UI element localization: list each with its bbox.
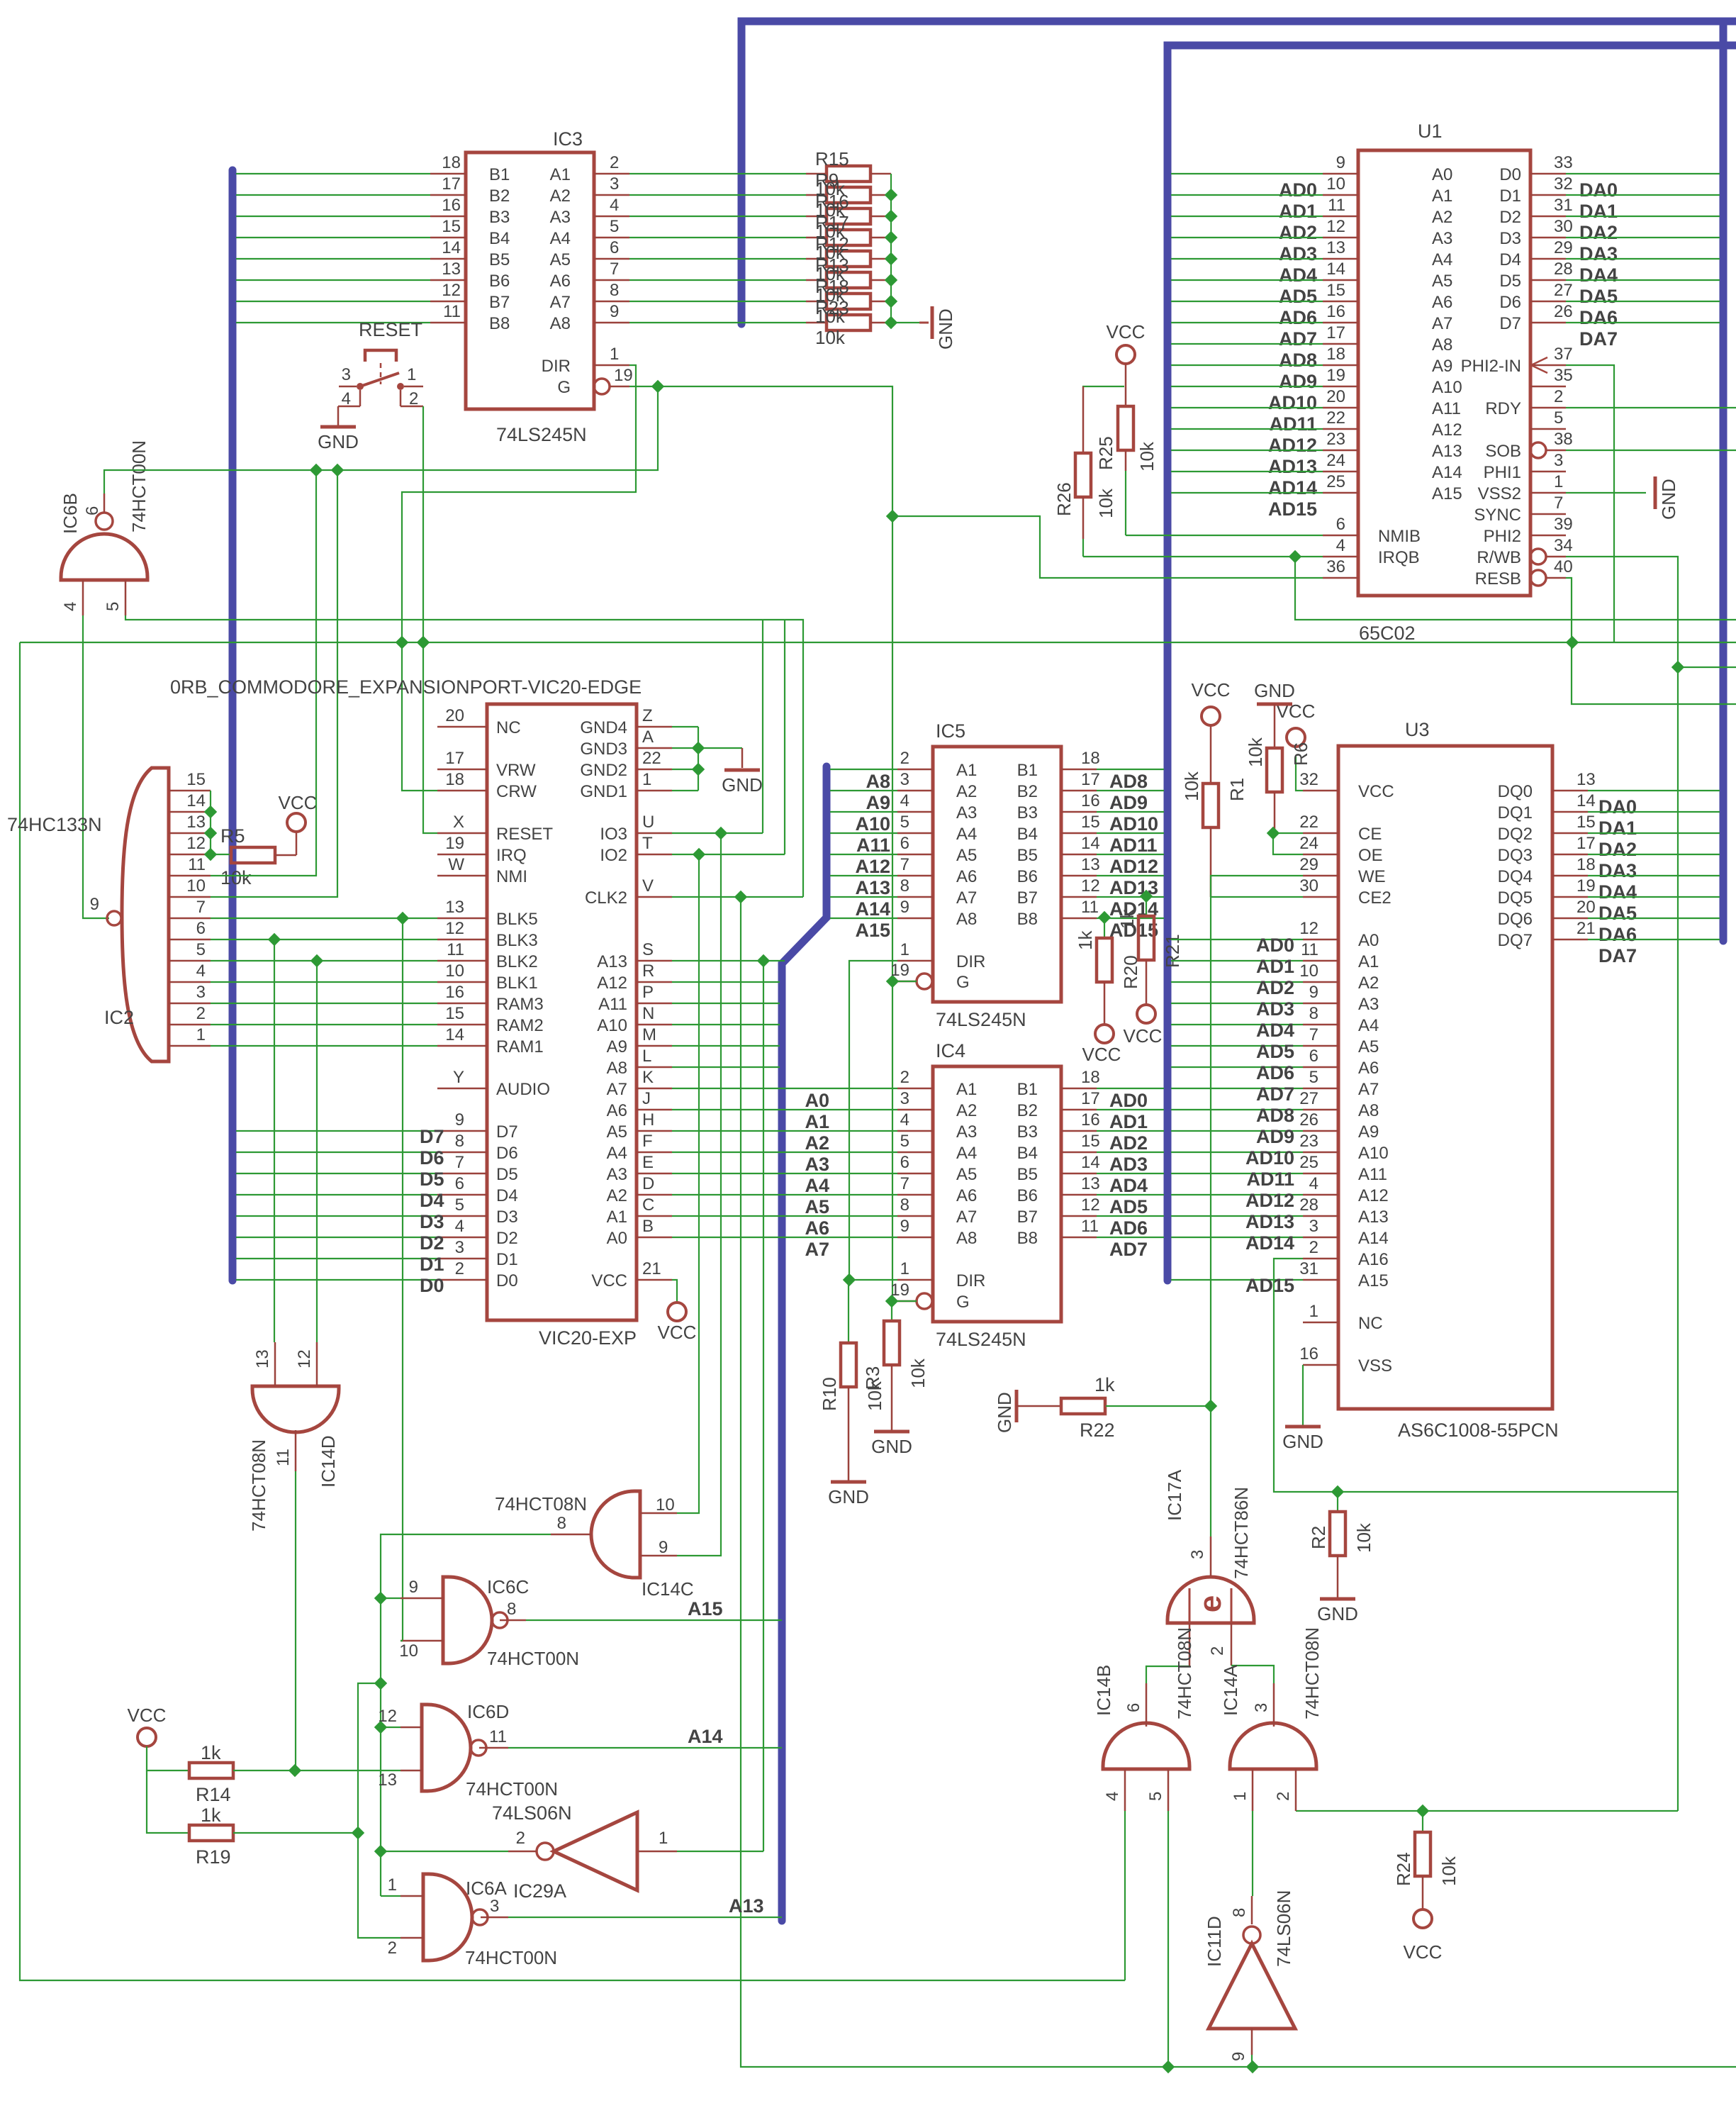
svg-text:GND: GND	[722, 774, 763, 796]
svg-text:7: 7	[455, 1153, 464, 1172]
svg-text:10: 10	[445, 961, 464, 981]
svg-text:13: 13	[186, 813, 206, 832]
svg-text:19: 19	[890, 961, 909, 980]
svg-text:11: 11	[274, 1449, 293, 1466]
svg-text:12: 12	[186, 834, 206, 853]
svg-text:5: 5	[455, 1195, 464, 1215]
svg-text:VSS2: VSS2	[1478, 484, 1521, 503]
svg-text:1: 1	[196, 1025, 206, 1044]
svg-text:e: e	[1193, 1595, 1228, 1612]
svg-text:VIC20-EXP: VIC20-EXP	[539, 1327, 637, 1349]
svg-text:AD10: AD10	[1245, 1147, 1294, 1169]
svg-text:IC17A: IC17A	[1164, 1469, 1185, 1521]
svg-text:W: W	[448, 855, 464, 874]
svg-text:DA6: DA6	[1598, 924, 1637, 945]
svg-text:11: 11	[447, 940, 464, 959]
svg-text:R26: R26	[1053, 482, 1075, 516]
svg-text:17: 17	[1081, 770, 1100, 789]
svg-text:K: K	[642, 1068, 654, 1087]
svg-text:AD2: AD2	[1279, 222, 1317, 243]
svg-text:R24: R24	[1393, 1852, 1414, 1886]
svg-text:OE: OE	[1358, 846, 1383, 865]
svg-text:NC: NC	[496, 718, 521, 737]
svg-text:WE: WE	[1358, 867, 1386, 886]
svg-text:23: 23	[1326, 430, 1345, 449]
gate IC6C 74HCT00N NAND	[399, 1576, 579, 1669]
svg-text:A9: A9	[607, 1037, 627, 1056]
svg-text:74LS245N: 74LS245N	[936, 1009, 1026, 1030]
bus: VIC20 data/IC3 bus vertical at left	[229, 170, 237, 1281]
svg-text:A7: A7	[1358, 1080, 1379, 1099]
svg-text:AD3: AD3	[1256, 998, 1294, 1020]
gate IC6A 74HCT00N NAND	[388, 1874, 557, 1968]
wire: IC17A input 1 from IC14B	[1146, 1666, 1189, 1683]
svg-text:15: 15	[1326, 281, 1345, 300]
svg-text:5: 5	[1554, 408, 1563, 428]
svg-text:C: C	[642, 1195, 654, 1215]
svg-text:A10: A10	[1358, 1144, 1389, 1163]
svg-text:SOB: SOB	[1485, 442, 1521, 461]
ground GND below reset switch	[318, 427, 359, 452]
svg-text:A2: A2	[607, 1186, 627, 1205]
svg-text:74HCT00N: 74HCT00N	[487, 1648, 579, 1669]
wire: IC14D output down to IC6D input 13	[295, 1471, 296, 1770]
svg-text:2: 2	[1208, 1646, 1227, 1656]
svg-text:8: 8	[557, 1514, 566, 1533]
svg-text:IO2: IO2	[600, 846, 627, 865]
svg-text:D7: D7	[1499, 314, 1521, 333]
svg-text:A5: A5	[956, 1165, 977, 1184]
svg-text:7: 7	[1554, 493, 1563, 513]
resistor R10 10k on DIR net to GND	[819, 1280, 885, 1480]
svg-text:R22: R22	[1080, 1420, 1115, 1441]
svg-text:3: 3	[196, 983, 206, 1002]
wire: IC3 A-side wires to pull-down resistors	[629, 174, 806, 323]
svg-text:18: 18	[1577, 855, 1596, 874]
svg-text:A12: A12	[597, 974, 627, 993]
svg-text:DQ4: DQ4	[1498, 867, 1533, 886]
gate IC29A 74LS06N inverter	[492, 1802, 677, 1902]
connector VIC20-EXP 0RB_COMMODORE_EXPANSIONPORT-VIC20-EDGE	[170, 676, 672, 1349]
svg-text:1k: 1k	[1094, 1374, 1115, 1395]
svg-text:DQ1: DQ1	[1498, 803, 1533, 822]
wire: U3 VCC pin	[1296, 757, 1303, 791]
svg-text:AD4: AD4	[1279, 264, 1317, 286]
svg-text:0RB_COMMODORE_EXPANSIONPORT-VI: 0RB_COMMODORE_EXPANSIONPORT-VIC20-EDGE	[170, 676, 642, 698]
svg-text:DQ6: DQ6	[1498, 910, 1533, 929]
svg-text:B1: B1	[1017, 761, 1038, 780]
svg-text:M: M	[642, 1025, 656, 1044]
svg-text:12: 12	[1081, 876, 1100, 896]
wire: IC6B input 5 to CLK2 drop	[125, 615, 803, 897]
svg-text:D0: D0	[1499, 165, 1521, 184]
wire: BLK5 vertical to gates	[396, 912, 409, 1641]
svg-text:AD10: AD10	[1109, 813, 1158, 835]
svg-text:15: 15	[1577, 813, 1596, 832]
svg-text:19: 19	[1577, 876, 1596, 896]
svg-text:AD9: AD9	[1279, 371, 1317, 392]
svg-text:D1: D1	[1499, 186, 1521, 206]
svg-text:A4: A4	[805, 1175, 829, 1196]
svg-text:A11: A11	[1358, 1165, 1387, 1184]
svg-text:A9: A9	[866, 792, 890, 813]
svg-text:A14: A14	[855, 898, 890, 920]
svg-text:A13: A13	[1358, 1208, 1389, 1227]
svg-text:17: 17	[1577, 834, 1596, 853]
IC IC2 74HC133N 13-input NAND	[7, 768, 211, 1061]
svg-text:29: 29	[1554, 238, 1573, 257]
svg-text:A5: A5	[956, 846, 977, 865]
svg-text:A6: A6	[1432, 293, 1452, 312]
wire: IC6A output A13 to bus	[508, 1917, 782, 1918]
svg-text:A4: A4	[956, 1144, 977, 1163]
svg-text:A11: A11	[856, 835, 890, 856]
svg-text:DQ0: DQ0	[1498, 782, 1533, 801]
svg-text:A11: A11	[598, 995, 627, 1014]
svg-text:A0: A0	[1358, 931, 1379, 950]
svg-text:B7: B7	[1017, 1208, 1038, 1227]
svg-text:13: 13	[1081, 855, 1100, 874]
svg-text:AD3: AD3	[1109, 1154, 1148, 1175]
svg-text:18: 18	[1326, 345, 1345, 364]
svg-text:N: N	[642, 1004, 654, 1023]
svg-text:A6: A6	[956, 1186, 977, 1205]
svg-text:A5: A5	[1432, 272, 1452, 291]
svg-text:36: 36	[1326, 557, 1345, 576]
svg-text:15: 15	[442, 217, 461, 236]
wire: U1 VSS2 to ground	[1566, 492, 1646, 493]
svg-text:A4: A4	[607, 1144, 627, 1163]
svg-text:18: 18	[442, 153, 461, 172]
svg-text:14: 14	[1326, 260, 1345, 279]
svg-text:GND: GND	[318, 431, 359, 452]
svg-text:16: 16	[1081, 1110, 1100, 1130]
svg-text:A7: A7	[956, 1208, 977, 1227]
svg-text:6: 6	[610, 238, 619, 257]
bus: data bus DA0-DA7 vertical at right edge	[1720, 21, 1727, 941]
power VCC at VIC20 pin 21	[658, 1303, 697, 1343]
svg-text:IC11D: IC11D	[1204, 1916, 1225, 1967]
svg-text:11: 11	[1301, 940, 1318, 959]
resistor R2 10k A16 net to GND	[1308, 1492, 1374, 1597]
wire: reset switch to VIC20 RESET pin	[417, 406, 437, 833]
svg-text:R25: R25	[1095, 436, 1116, 470]
svg-text:DIR: DIR	[956, 952, 985, 971]
IC IC4 74LS245N address buffer low	[890, 1040, 1099, 1350]
svg-text:1: 1	[900, 1259, 909, 1278]
svg-text:32: 32	[1554, 174, 1573, 194]
svg-text:6: 6	[83, 506, 102, 515]
svg-text:A0: A0	[1432, 165, 1452, 184]
svg-text:AS6C1008-55PCN: AS6C1008-55PCN	[1398, 1420, 1559, 1441]
svg-text:5: 5	[610, 217, 619, 236]
svg-text:A13: A13	[855, 877, 890, 898]
svg-text:DA4: DA4	[1579, 264, 1618, 286]
svg-text:19: 19	[1326, 366, 1345, 385]
svg-text:RESET: RESET	[496, 825, 553, 844]
svg-text:G: G	[956, 973, 970, 992]
svg-text:IC29A: IC29A	[513, 1880, 566, 1902]
svg-text:AD11: AD11	[1246, 1169, 1294, 1190]
svg-text:A3: A3	[607, 1165, 627, 1184]
svg-text:VRW: VRW	[496, 761, 536, 780]
svg-text:4: 4	[1103, 1792, 1122, 1801]
wire: IC6D output A14 to bus	[508, 1747, 782, 1749]
svg-text:B8: B8	[1017, 1229, 1038, 1248]
wire: IC4 G from chain	[885, 1295, 917, 1307]
svg-text:A2: A2	[550, 186, 571, 206]
svg-text:14: 14	[445, 1025, 464, 1044]
svg-text:A8: A8	[956, 1229, 977, 1248]
svg-text:D4: D4	[1499, 250, 1521, 269]
svg-text:AUDIO: AUDIO	[496, 1080, 550, 1099]
ground GND at VIC20	[722, 748, 763, 796]
svg-text:33: 33	[1554, 153, 1573, 172]
svg-text:B3: B3	[1017, 803, 1038, 822]
svg-text:20: 20	[1577, 898, 1596, 917]
svg-text:B7: B7	[1017, 888, 1038, 908]
svg-text:DQ5: DQ5	[1498, 888, 1533, 908]
svg-text:12: 12	[442, 281, 461, 300]
svg-text:AD2: AD2	[1109, 1132, 1148, 1154]
svg-text:E: E	[642, 1153, 654, 1172]
svg-text:VCC: VCC	[658, 1322, 697, 1343]
svg-text:2: 2	[1274, 1792, 1293, 1801]
svg-text:A12: A12	[855, 856, 890, 877]
svg-text:74HCT08N: 74HCT08N	[1301, 1627, 1323, 1719]
resistor R20 1k on AD15 to VCC	[1075, 911, 1141, 1065]
wire: R22 to WE vertical	[1106, 1405, 1211, 1407]
svg-text:A4: A4	[1432, 250, 1452, 269]
svg-text:29: 29	[1299, 855, 1318, 874]
svg-text:AD14: AD14	[1245, 1232, 1294, 1254]
resistor R1 10k VCC to CE2	[1181, 679, 1248, 897]
svg-text:4: 4	[610, 196, 619, 215]
IC IC3 74LS245N bus transceiver	[430, 128, 633, 445]
svg-text:A0: A0	[805, 1090, 829, 1111]
svg-text:RESET: RESET	[359, 319, 422, 340]
svg-text:AD8: AD8	[1256, 1105, 1294, 1126]
svg-text:A1: A1	[1358, 952, 1379, 971]
svg-text:R23: R23	[815, 297, 849, 318]
svg-text:10k: 10k	[1095, 488, 1116, 518]
svg-text:9: 9	[90, 895, 99, 914]
svg-text:AD15: AD15	[1268, 498, 1317, 520]
svg-text:R6: R6	[1290, 742, 1311, 766]
svg-text:DA0: DA0	[1598, 796, 1637, 818]
svg-text:VCC: VCC	[1124, 1025, 1163, 1047]
svg-text:35: 35	[1554, 366, 1573, 385]
svg-text:A6: A6	[607, 1101, 627, 1120]
svg-text:31: 31	[1554, 196, 1573, 215]
svg-text:10k: 10k	[1181, 771, 1202, 801]
label net A15	[688, 1598, 723, 1619]
svg-text:37: 37	[1554, 345, 1573, 364]
svg-text:AD10: AD10	[1268, 392, 1317, 413]
svg-text:10: 10	[1326, 174, 1345, 194]
wire: U1 RDY to sheet edge	[1566, 407, 1736, 408]
wire: BLK1 net IC2.4	[211, 981, 437, 983]
svg-text:IC14A: IC14A	[1220, 1664, 1241, 1716]
svg-text:X: X	[453, 813, 464, 832]
svg-text:A3: A3	[805, 1154, 829, 1175]
svg-text:DQ2: DQ2	[1498, 825, 1533, 844]
svg-text:74HCT86N: 74HCT86N	[1231, 1487, 1252, 1579]
svg-text:D5: D5	[1499, 272, 1521, 291]
svg-text:IC3: IC3	[553, 128, 583, 150]
svg-text:8: 8	[507, 1600, 516, 1619]
svg-text:VCC: VCC	[1107, 321, 1146, 342]
svg-text:74LS06N: 74LS06N	[1273, 1890, 1294, 1967]
svg-text:RDY: RDY	[1485, 399, 1521, 418]
svg-text:B3: B3	[1017, 1122, 1038, 1142]
svg-text:CE: CE	[1358, 825, 1382, 844]
svg-text:AD1: AD1	[1256, 956, 1294, 977]
svg-text:16: 16	[442, 196, 461, 215]
resistor R5 10k pullup to VCC	[211, 792, 317, 888]
wire: CLK2 net V	[672, 891, 803, 903]
svg-text:6: 6	[900, 1153, 909, 1172]
svg-text:39: 39	[1554, 515, 1573, 534]
svg-text:R15: R15	[815, 148, 849, 169]
svg-text:IC6D: IC6D	[467, 1701, 509, 1722]
svg-text:18: 18	[445, 770, 464, 789]
wire: IC2 pin 11 from IC6B output net	[211, 464, 323, 876]
gate IC14B 74HCT08N AND	[1093, 1627, 1195, 1811]
svg-text:A5: A5	[550, 250, 571, 269]
svg-text:A1: A1	[550, 165, 571, 184]
svg-text:1: 1	[388, 1875, 397, 1895]
svg-text:A2: A2	[1432, 208, 1452, 227]
svg-text:A4: A4	[550, 229, 571, 248]
svg-text:8: 8	[900, 1195, 909, 1215]
svg-text:GND: GND	[935, 308, 956, 350]
svg-text:R18: R18	[815, 276, 849, 297]
svg-text:27: 27	[1299, 1089, 1318, 1108]
svg-text:U: U	[642, 813, 654, 832]
svg-text:R16: R16	[815, 191, 849, 212]
svg-text:B3: B3	[489, 208, 510, 227]
wire: VIC20 A13-A8 rows to bus	[672, 961, 785, 1067]
svg-text:RAM3: RAM3	[496, 995, 544, 1014]
svg-text:GND4: GND4	[580, 718, 627, 737]
svg-text:3: 3	[1188, 1550, 1207, 1559]
svg-text:A6: A6	[956, 867, 977, 886]
svg-text:4: 4	[900, 1110, 909, 1130]
svg-text:B5: B5	[1017, 1165, 1038, 1184]
svg-text:A11: A11	[1432, 399, 1461, 418]
svg-text:9: 9	[1229, 2052, 1248, 2061]
svg-text:Z: Z	[642, 706, 653, 725]
svg-text:PHI2: PHI2	[1484, 527, 1521, 546]
svg-text:8: 8	[1230, 1908, 1249, 1917]
svg-text:2: 2	[1309, 1238, 1318, 1257]
wire: IO2 to IC14C input 10	[677, 854, 699, 1513]
svg-text:AD0: AD0	[1109, 1090, 1148, 1111]
svg-text:A2: A2	[1358, 974, 1379, 993]
resistor R3 10k on G net to GND	[862, 1301, 929, 1430]
svg-text:D2: D2	[420, 1232, 444, 1254]
ground GND below R3	[871, 1432, 912, 1457]
wire: IC29A input from tree	[381, 1851, 508, 1852]
svg-text:DA7: DA7	[1598, 945, 1637, 966]
wire: IO2 net T	[672, 620, 785, 861]
wire: IC14B input 4 from PHI2 rail	[1124, 1811, 1126, 1980]
svg-text:12: 12	[378, 1707, 397, 1726]
svg-text:4: 4	[455, 1217, 464, 1236]
svg-text:A3: A3	[956, 803, 977, 822]
svg-text:A9: A9	[1358, 1122, 1379, 1142]
wire: IC5 B outputs to bus labels AD8-AD15	[1097, 769, 1164, 941]
svg-text:AD5: AD5	[1109, 1196, 1148, 1217]
svg-text:10k: 10k	[815, 327, 846, 348]
svg-text:D1: D1	[420, 1254, 444, 1275]
svg-text:AD1: AD1	[1109, 1111, 1148, 1132]
wire: PHI2 net margin vertical down to IC14B	[20, 642, 1125, 1980]
svg-text:65C02: 65C02	[1359, 623, 1416, 644]
svg-text:30: 30	[1554, 217, 1573, 236]
svg-text:13: 13	[442, 260, 461, 279]
svg-text:6: 6	[900, 834, 909, 853]
svg-text:B2: B2	[1017, 782, 1038, 801]
svg-text:AD2: AD2	[1256, 977, 1294, 998]
svg-text:16: 16	[445, 983, 464, 1002]
svg-text:VCC: VCC	[1082, 1044, 1121, 1065]
svg-text:9: 9	[1336, 153, 1345, 172]
svg-text:3: 3	[342, 365, 351, 384]
svg-text:5: 5	[196, 940, 206, 959]
svg-text:GND: GND	[994, 1392, 1015, 1433]
wire: U1 R/WB net	[1566, 557, 1684, 1811]
svg-text:A: A	[642, 727, 654, 747]
svg-text:15: 15	[186, 770, 206, 789]
wire: IC2 inputs 15-12 tied junction	[204, 791, 217, 861]
svg-text:2: 2	[900, 749, 909, 768]
resistor R19 1k from VCC	[147, 1770, 233, 1868]
svg-text:DA0: DA0	[1579, 179, 1618, 201]
svg-text:J: J	[642, 1089, 651, 1108]
svg-text:13: 13	[378, 1770, 397, 1790]
svg-text:D5: D5	[420, 1169, 444, 1190]
svg-text:D0: D0	[496, 1271, 518, 1290]
svg-text:R5: R5	[220, 825, 245, 847]
svg-text:A2: A2	[956, 1101, 977, 1120]
svg-text:VCC: VCC	[128, 1705, 167, 1726]
svg-text:VCC: VCC	[1192, 679, 1231, 701]
svg-text:DIR: DIR	[542, 357, 571, 376]
svg-text:25: 25	[1299, 1153, 1318, 1172]
svg-text:B1: B1	[1017, 1080, 1038, 1099]
wire: IC17A output up to WE net	[1210, 1406, 1211, 1537]
svg-text:A5: A5	[607, 1122, 627, 1142]
wire: VIC20 A7-A0 rows to IC4 with labels	[672, 1088, 897, 1260]
svg-text:3: 3	[900, 770, 909, 789]
svg-text:R19: R19	[196, 1846, 231, 1868]
svg-text:R14: R14	[196, 1784, 231, 1805]
svg-text:6: 6	[196, 919, 206, 938]
IC U1 65C02 CPU	[1323, 121, 1573, 644]
svg-text:D3: D3	[420, 1211, 444, 1232]
svg-text:24: 24	[1326, 451, 1345, 470]
svg-text:28: 28	[1299, 1195, 1318, 1215]
svg-text:13: 13	[445, 898, 464, 917]
svg-text:13: 13	[253, 1349, 272, 1368]
ground GND below R2	[1317, 1599, 1358, 1624]
wire: A16 net to IC14A input 2	[1296, 1810, 1678, 1812]
svg-text:4: 4	[1336, 536, 1345, 555]
svg-text:AD4: AD4	[1109, 1175, 1148, 1196]
svg-text:16: 16	[1299, 1344, 1318, 1363]
